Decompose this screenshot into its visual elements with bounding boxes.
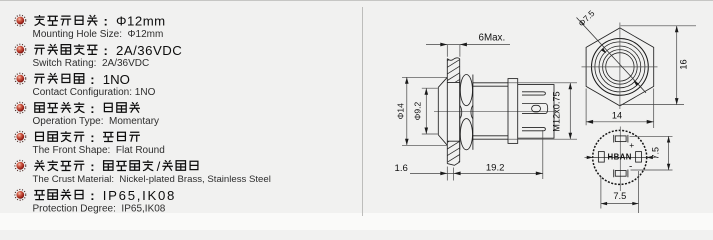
hex nut outline: [586, 28, 654, 106]
vertical divider: [362, 7, 364, 216]
svg-text::: :: [90, 130, 94, 145]
svg-text:The Front Shape: Flat Round: The Front Shape: Flat Round: [33, 145, 165, 156]
svg-text:Switch Rating: 2A/36VDC: Switch Rating: 2A/36VDC: [33, 58, 150, 69]
side view: top terminal pin: [522, 92, 545, 95]
svg-text::: :: [90, 188, 94, 203]
svg-text:16: 16: [678, 59, 688, 69]
svg-text:HBAN: HBAN: [608, 152, 632, 161]
spec row 1 chinese: [34, 15, 45, 26]
svg-text::: :: [90, 159, 94, 174]
side view: rear housing: [518, 85, 554, 139]
dimension M12x0.75: [508, 83, 577, 139]
bullet 6: [15, 160, 26, 171]
svg-text::: :: [104, 43, 108, 58]
svg-text::: :: [90, 101, 94, 116]
bullet 3: [15, 73, 26, 84]
svg-text:-: -: [629, 162, 632, 173]
bullet 7: [15, 189, 26, 200]
svg-text:6Max.: 6Max.: [479, 33, 506, 44]
svg-text:14: 14: [612, 111, 622, 121]
svg-text:2A/36VDC: 2A/36VDC: [116, 43, 182, 58]
side view: hex nut profile: [459, 75, 461, 150]
svg-text:19.2: 19.2: [486, 163, 505, 174]
svg-text:Contact Configuration: 1NO: Contact Configuration: 1NO: [33, 87, 156, 98]
side view: centerline: [434, 110, 556, 112]
svg-text:1.6: 1.6: [395, 163, 408, 174]
svg-text:Φ12mm: Φ12mm: [116, 14, 166, 29]
svg-text:Φ9.2: Φ9.2: [413, 102, 423, 121]
svg-text:Φ14: Φ14: [396, 103, 406, 120]
bullet 5: [15, 131, 26, 142]
bullet 4: [15, 102, 26, 113]
svg-text:1NO: 1NO: [103, 72, 130, 87]
svg-text:7.5: 7.5: [613, 191, 626, 201]
svg-text:+: +: [629, 140, 634, 150]
side view: mounting panel (hatched): [447, 59, 459, 164]
svg-text::: :: [104, 14, 108, 29]
spec row 6 chinese: [34, 160, 45, 170]
rear view: bottom solder terminal: [615, 171, 626, 177]
svg-text:/: /: [157, 159, 161, 174]
svg-text::: :: [90, 72, 94, 87]
rear view: top solder terminal: [615, 136, 626, 142]
spec row 7 chinese: [34, 191, 45, 200]
rear view: centerlines: [585, 127, 656, 192]
dimension phi14: [402, 77, 447, 145]
dimension phi9.2: [422, 88, 438, 134]
rear view: knurled ring: [593, 130, 647, 184]
svg-text:Mounting Hole Size: Φ12mm: Mounting Hole Size: Φ12mm: [33, 29, 164, 40]
bullet 1: [15, 15, 26, 26]
spec row 3 chinese: [34, 74, 45, 83]
side view: middle terminal pin with hole: [522, 104, 548, 114]
dimension 7.5 horizontal: [601, 171, 639, 213]
dimension 16: [621, 26, 697, 105]
rear view: right lug: [636, 152, 642, 163]
spec row 5 chinese: [36, 132, 44, 140]
side view: rear flange: [508, 79, 518, 144]
rear view: left lug: [598, 152, 604, 163]
spec row 2 chinese: [34, 45, 45, 54]
dimension 14: [586, 89, 654, 129]
svg-text:Protection Degree: IP65,IK08: Protection Degree: IP65,IK08: [33, 203, 166, 214]
hex nut circles: [592, 39, 649, 96]
dimension 6Max: [426, 45, 510, 57]
spec row 4 chinese: [35, 103, 44, 113]
dimension 1.6 and 19.2: [410, 130, 543, 181]
dimension phi7.5 diagonal leader: [577, 18, 647, 93]
svg-text:Operation Type: Momentary: Operation Type: Momentary: [33, 116, 160, 127]
hex nut centerlines: [582, 23, 658, 110]
side view: button head: [438, 77, 447, 145]
bullet 2: [15, 44, 26, 55]
svg-text:M12x0.75: M12x0.75: [552, 91, 562, 131]
svg-text:The Crust Material: Nickel-pl: The Crust Material: Nickel-plated Brass,…: [33, 174, 271, 185]
svg-text:7.5: 7.5: [651, 147, 661, 160]
svg-text:IP65,IK08: IP65,IK08: [103, 188, 176, 203]
dimension 7.5 vertical: [630, 136, 673, 170]
side view: threaded body M12: [473, 83, 508, 139]
side view: bottom terminal pin: [522, 127, 545, 130]
